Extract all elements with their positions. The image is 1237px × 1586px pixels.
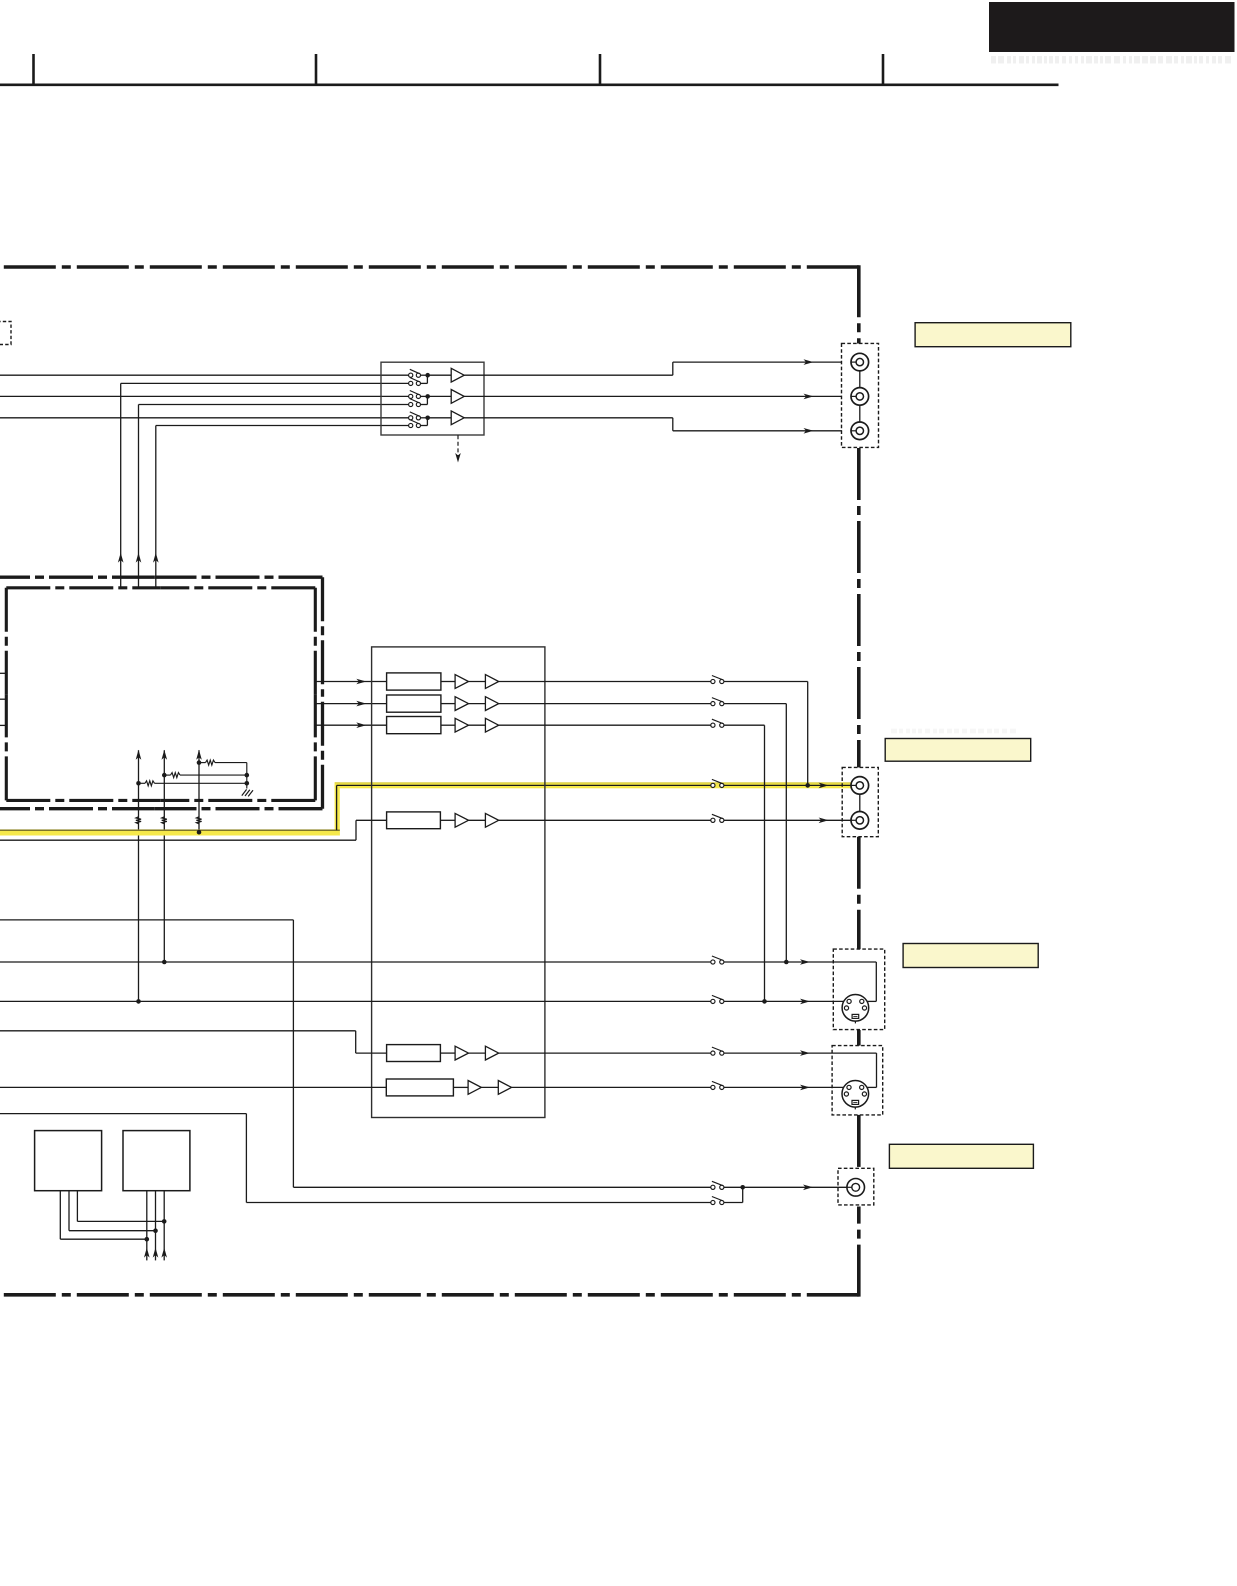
- wire: T2 lead 1 with junction: [146, 1191, 148, 1261]
- wire: T2 lead 2 with junction: [155, 1191, 157, 1261]
- RCA output jack group J1 (dashed enclosure): [842, 343, 879, 447]
- switch S3a on highlighted net: [711, 783, 715, 787]
- switch S2b (rec out 2): [711, 702, 715, 706]
- buffer amps after R205: [455, 1046, 468, 1060]
- resistor R203: [387, 717, 441, 734]
- wire: T1 lead 1: [59, 1191, 61, 1240]
- ruler / title-strip line with ticks: [0, 84, 1059, 87]
- wire: input L ch to record selector: [0, 374, 409, 376]
- resistor R204: [387, 812, 441, 829]
- buffer amps after R204: [455, 813, 468, 827]
- buffer box (line amp block): [372, 647, 545, 1118]
- wire: record out 1: [464, 374, 673, 376]
- buffer amps after R206: [468, 1081, 481, 1095]
- resistor R101 (internal): [136, 781, 141, 786]
- wire: phono feed B: [0, 1113, 246, 1115]
- wire: input R ch to record selector: [0, 395, 409, 397]
- small dashed box at left edge: [0, 322, 11, 345]
- wire: line out 6: [512, 1086, 711, 1088]
- IC input stubs at left edge: [0, 672, 6, 674]
- label box (yellow) for J2: [885, 739, 1030, 762]
- wire: riser from IC to record selector pole 2: [139, 404, 409, 406]
- RCA jack J2-2: [851, 812, 869, 830]
- link wire J1 jacks: [859, 371, 861, 388]
- switch S5a: [711, 1051, 715, 1055]
- DIN connector enclosure CN2 (dashed): [832, 1046, 883, 1115]
- switch S1a (DPDT pole pair): [409, 369, 452, 385]
- RCA jack J1-3: [851, 422, 869, 440]
- resistor R102 (internal): [162, 773, 167, 778]
- label box (yellow) for CN1: [903, 944, 1038, 968]
- wire: phono out: [293, 1186, 710, 1188]
- wire: T1 lead 3: [76, 1191, 78, 1222]
- buffer amp U1a: [451, 368, 464, 382]
- RCA jack J1-1: [851, 353, 869, 371]
- wire: input 3 to record selector: [0, 417, 409, 419]
- wire: tape 2 line A: [724, 1052, 877, 1054]
- resistor R103 (internal): [197, 760, 202, 765]
- wire: IC internal drop 2 (to tape line): [163, 750, 165, 962]
- buffer amp U1c: [451, 411, 464, 425]
- faint printed text row under title block: [991, 56, 1231, 64]
- RCA jack J1-2: [851, 388, 869, 406]
- main shield border: bottom edge: [0, 1293, 859, 1297]
- resistor R206: [386, 1079, 453, 1096]
- IC block Q101 outer shield (dash-dot): [0, 576, 154, 579]
- wire: line out 4: [499, 819, 711, 821]
- junction node to ground: [246, 763, 248, 789]
- buffer amp U1b: [451, 390, 464, 404]
- highlighted (yellow) net: monitor out path: [0, 829, 340, 835]
- wire: phono feed A: [0, 919, 293, 921]
- dashed arrow below record selector: [457, 435, 459, 455]
- wire: line out 1: [499, 681, 711, 683]
- switch S3b: [711, 818, 715, 822]
- buffer amps after R203: [455, 718, 468, 732]
- wire on highlighted net: [337, 784, 711, 786]
- wire: T2 lead 3 with junction: [163, 1191, 165, 1261]
- wire: record out 2: [464, 395, 842, 397]
- IC output wires to buffer box: [315, 681, 386, 683]
- RCA jack group J2 (dashed enclosure): [842, 767, 878, 836]
- switch S2c (rec out 3): [711, 723, 715, 727]
- record selector switch box S1: [381, 362, 484, 435]
- block T1 (transformer/module): [35, 1131, 102, 1191]
- faint printed text above J2 label: [891, 729, 1016, 734]
- main shield border: top edge: [0, 265, 859, 269]
- RCA jack enclosure J3 (dashed): [838, 1168, 874, 1205]
- DIN connector CN2: [842, 1081, 869, 1110]
- wire: line out 3: [499, 724, 711, 726]
- buffer amps after R202: [455, 697, 468, 711]
- wire: riser from IC to record selector pole 3: [156, 425, 409, 427]
- IC block Q101 inner border (dash-dot): [6, 586, 161, 589]
- resistor R201: [387, 673, 441, 690]
- shield pass-through marks on drop wires: [136, 817, 141, 824]
- wire: T1 lead 2: [68, 1191, 70, 1231]
- wire: IC internal drop 1 (to tape line): [138, 750, 140, 1001]
- wire: line out 2: [499, 703, 711, 705]
- block T2 (transformer/module): [123, 1131, 190, 1191]
- DIN connector enclosure CN1 (dashed): [833, 949, 884, 1030]
- resistor R202: [387, 695, 441, 712]
- main shield border: right edge segments: [857, 265, 861, 343]
- switch S4b: [711, 999, 715, 1003]
- wire: tape play L: [0, 961, 711, 963]
- label box (yellow) for J3: [889, 1144, 1033, 1168]
- switch S6b: [711, 1200, 715, 1204]
- wire: phono return: [246, 1202, 710, 1204]
- wire: tape play R: [0, 1000, 711, 1002]
- DIN connector CN1: [842, 995, 869, 1024]
- resistor R205: [387, 1045, 441, 1062]
- switch S5b: [711, 1085, 715, 1089]
- switch S4a: [711, 960, 715, 964]
- buffer amps after R201: [455, 675, 468, 689]
- switch S1b (DPDT pole pair): [409, 391, 452, 407]
- wire: line out 5: [499, 1052, 711, 1054]
- RCA jack J2-1: [851, 777, 869, 795]
- wire: riser from IC to record selector pole 1: [121, 382, 409, 384]
- wire: feed to R206: [0, 1086, 386, 1088]
- wire: record out 3: [464, 417, 673, 419]
- wire: IC internal drop 3 (to highlighted net): [198, 750, 200, 832]
- ground: [242, 789, 247, 795]
- label box (yellow) for J1: [915, 323, 1071, 347]
- wire: feed to R205: [0, 1030, 356, 1032]
- header title block (redacted): [989, 2, 1235, 52]
- switch S6a: [711, 1185, 715, 1189]
- RCA jack J3: [847, 1179, 865, 1197]
- switch S2a (rec out 1): [711, 679, 715, 683]
- wire: feed to R204: [0, 839, 356, 841]
- switch S1c (DPDT pole pair): [409, 412, 452, 428]
